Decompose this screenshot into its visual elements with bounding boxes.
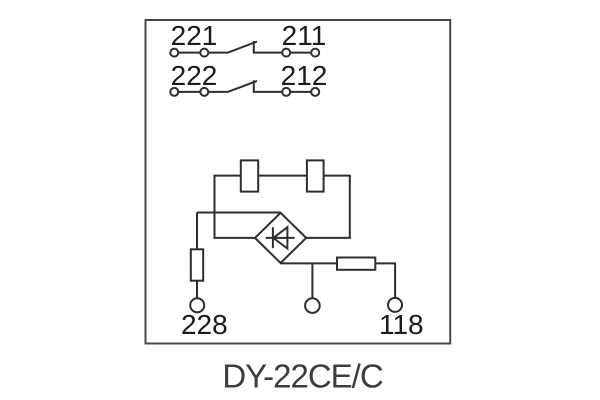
wire: left branch vertical down to R3 <box>196 213 198 250</box>
outer border frame of relay case <box>146 20 451 344</box>
svg-text:118: 118 <box>379 309 424 340</box>
contact terminal circle 221-a <box>170 49 178 57</box>
wire: rectifier bottom vertex to R4 <box>281 262 337 264</box>
wire 222-b to switch blade K2 <box>208 91 227 93</box>
svg-text:221: 221 <box>171 20 218 51</box>
wire: R3 to terminal 228 <box>196 281 198 299</box>
contact terminal circle 222-a <box>170 88 178 96</box>
bridge rectifier U1 (diamond) <box>255 213 306 263</box>
contact terminal circle 212-a <box>282 88 290 96</box>
wire: left vertical of coil loop <box>214 176 216 238</box>
switch fixed post K2 <box>254 80 282 92</box>
wire: loop top, left segment <box>214 175 241 177</box>
diode symbol inside U1: triangle <box>273 227 287 248</box>
svg-text:228: 228 <box>181 309 228 340</box>
wire: right vertical of coil loop <box>349 176 351 238</box>
wire: R4 to right corner and down to terminal 118 <box>375 263 395 298</box>
wire: loop top, right segment <box>324 175 351 177</box>
contact terminal circle 211-a <box>282 49 290 57</box>
switch blade K2 (moving contact) <box>227 81 257 92</box>
terminal circle 228 <box>190 298 204 312</box>
terminal circle (middle, unlabeled) <box>305 298 320 313</box>
switch fixed post K1 <box>254 41 282 53</box>
svg-text:DY-22CE/C: DY-22CE/C <box>222 358 383 395</box>
diode symbol inside U1: horizontal lead <box>266 237 295 239</box>
svg-text:212: 212 <box>281 60 328 91</box>
wire between 222 terminals <box>178 91 200 93</box>
terminal circle 118 <box>388 298 402 312</box>
resistor R3 (left branch) <box>191 249 203 280</box>
resistor R2 (coil) <box>307 160 324 191</box>
svg-text:211: 211 <box>282 20 327 51</box>
resistor R1 (coil) <box>241 160 258 191</box>
wire between 221 terminals <box>178 52 200 54</box>
switch blade K1 (moving contact) <box>227 42 257 53</box>
contact terminal circle 222-b <box>200 88 208 96</box>
wire: loop bottom left to rectifier <box>214 237 257 239</box>
svg-text:222: 222 <box>171 60 218 91</box>
wire: loop top, middle segment <box>258 175 307 177</box>
wire between 212 terminals <box>290 91 311 93</box>
wire 221-b to switch blade K1 <box>208 52 227 54</box>
wire: rectifier to loop bottom right <box>305 237 351 239</box>
contact terminal circle 212-b <box>311 88 319 96</box>
wire: horizontal feed to rectifier top vertex <box>197 212 281 214</box>
contact terminal circle 211-b <box>311 49 319 57</box>
diode symbol inside U1: cathode bar <box>272 227 274 248</box>
contact terminal circle 221-b <box>200 49 208 57</box>
wire: middle terminal drop <box>311 263 313 298</box>
wire between 211 terminals <box>290 52 311 54</box>
resistor R4 (right branch) <box>337 258 375 270</box>
